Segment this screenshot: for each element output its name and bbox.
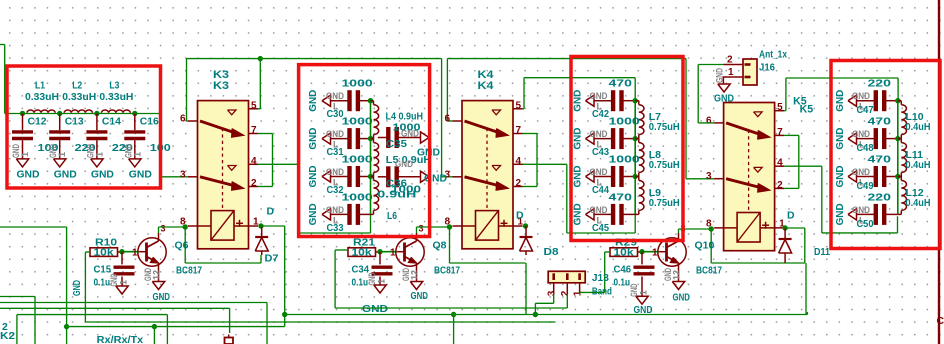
capacitor C46: [641, 252, 643, 265]
wire left edge to K3 coil area: [0, 226, 67, 228]
svg-text:470: 470: [868, 154, 892, 166]
svg-text:C49: C49: [857, 181, 874, 192]
connector J16: [743, 59, 757, 85]
svg-text:C15: C15: [94, 263, 112, 275]
svg-text:GND: GND: [395, 159, 413, 169]
svg-text:0.75uH: 0.75uH: [649, 121, 680, 133]
inductor L9: [635, 176, 639, 178]
svg-text:GND: GND: [129, 168, 152, 180]
node R10/Q6 base junction: [119, 249, 124, 254]
svg-text:1: 1: [94, 152, 104, 157]
connector J16 pin 1 stub: [723, 76, 743, 78]
svg-text:C43: C43: [592, 147, 609, 158]
capacitor C34 gnd: [379, 277, 381, 286]
ground symbol for C49: [848, 171, 857, 182]
wire K4 coil net to bottom bus: [525, 263, 527, 315]
node junction C12: [20, 111, 25, 116]
svg-text:2: 2: [560, 290, 571, 296]
wire J13 pin2 down: [566, 294, 568, 308]
connector J16 pin 2 stub: [723, 64, 743, 66]
svg-text:12: 12: [410, 270, 420, 280]
node R21/Q8 base junction: [377, 249, 382, 254]
relay K4 pin 8 stub: [453, 225, 476, 227]
svg-text:C35: C35: [386, 138, 407, 150]
wire K4 pin4 to filter3: [523, 163, 567, 165]
svg-text:7: 7: [516, 125, 522, 136]
relay K5 contact triangle pin4: [754, 167, 763, 172]
svg-text:GND: GND: [91, 168, 114, 180]
wire relay coil supply line: [285, 314, 808, 316]
svg-text:GND: GND: [109, 273, 119, 286]
svg-text:C13: C13: [65, 115, 84, 127]
capacitor C31: [331, 138, 350, 140]
resistor R21: [348, 248, 376, 257]
svg-text:R29: R29: [615, 236, 637, 248]
svg-text:0.4uH: 0.4uH: [906, 159, 931, 171]
node junction K4 pin1: [523, 223, 528, 228]
svg-text:C45: C45: [592, 223, 609, 234]
svg-text:5: 5: [251, 100, 257, 111]
ground symbol for C44: [586, 171, 595, 182]
capacitor C36: [378, 176, 389, 178]
node junction Rx line mid: [152, 324, 157, 329]
svg-text:0.4uH: 0.4uH: [906, 121, 931, 133]
wire filter2 bottom return: [298, 232, 371, 234]
svg-text:GND: GND: [153, 291, 171, 303]
capacitor C13: [59, 114, 61, 131]
via pad: [225, 338, 234, 344]
svg-text:Band: Band: [592, 286, 612, 298]
relay K4 coil: [476, 211, 499, 241]
svg-text:GND: GND: [852, 129, 870, 139]
wire filter4 bottom return: [822, 232, 898, 234]
svg-text:GND: GND: [424, 173, 447, 185]
wire R10 left lead down: [85, 251, 90, 253]
resistor R10: [90, 248, 118, 257]
capacitor C15: [121, 252, 123, 265]
wire K4 pin7 to pin2 jumper: [523, 133, 538, 135]
svg-text:0.1u: 0.1u: [614, 277, 631, 289]
transistor Q8 emitter gnd: [416, 272, 418, 282]
svg-text:2: 2: [251, 178, 257, 189]
svg-text:1: 1: [119, 280, 129, 285]
svg-text:GND: GND: [307, 165, 319, 187]
capacitor C32: [331, 176, 350, 178]
node junction C14: [94, 111, 99, 116]
node junction C31: [368, 136, 373, 141]
wire rail K4.6-K5.3: [447, 58, 686, 60]
svg-text:1: 1: [20, 152, 30, 157]
svg-text:0.1u: 0.1u: [94, 277, 111, 289]
ground symbol for C45: [586, 209, 595, 220]
relay K3 contact triangle pin4: [228, 166, 237, 171]
relay K3 pin 8 stub: [188, 225, 211, 227]
inductor L2: [64, 110, 92, 113]
relay K5 switch arm 1: [726, 123, 762, 135]
svg-text:4: 4: [777, 158, 783, 169]
signal bus wire: [370, 101, 372, 215]
svg-text:6: 6: [706, 115, 712, 126]
capacitor C49: [857, 176, 876, 178]
svg-text:C16: C16: [140, 115, 159, 127]
svg-text:L3: L3: [109, 80, 119, 92]
wire R21 left lead down to J13 pin2 net: [335, 249, 348, 251]
svg-text:GND: GND: [590, 167, 608, 177]
svg-text:1: 1: [377, 279, 387, 284]
capacitor C30: [331, 100, 350, 102]
svg-text:GND: GND: [72, 280, 83, 296]
relay K4 body: [462, 101, 513, 249]
relay K5 dashed link: [748, 130, 750, 213]
svg-text:L1: L1: [35, 80, 45, 92]
svg-text:2: 2: [727, 55, 733, 66]
node junction C13: [57, 111, 62, 116]
wire base lead: [122, 251, 140, 253]
inductor L3: [101, 110, 130, 113]
svg-text:GND: GND: [326, 167, 344, 177]
ground symbol for C14: [91, 159, 103, 167]
relay K5 pin 4 stub: [775, 165, 785, 167]
wire control line A: [0, 296, 35, 298]
relay K4 coil plus sign: [501, 222, 508, 224]
node junction C49: [895, 174, 900, 179]
relay K5 coil plus sign: [762, 224, 769, 226]
svg-text:BC817: BC817: [434, 264, 460, 276]
svg-text:GND: GND: [590, 129, 608, 139]
diode D8: [525, 226, 527, 237]
capacitor C47: [857, 100, 876, 102]
svg-text:GND: GND: [852, 91, 870, 101]
node junction coil supply branch: [451, 312, 456, 317]
highlight box filter 3: [571, 57, 683, 241]
svg-text:1: 1: [639, 290, 649, 295]
svg-text:C12: C12: [28, 115, 47, 127]
svg-text:D: D: [267, 206, 275, 218]
node junction C42: [633, 98, 638, 103]
inductor L7: [635, 100, 639, 102]
svg-text:C14: C14: [102, 115, 121, 127]
relay K5 pin 5 stub: [775, 110, 785, 112]
svg-text:GND: GND: [834, 165, 846, 187]
svg-text:J16: J16: [759, 62, 775, 74]
svg-text:5: 5: [777, 102, 783, 113]
relay K4 pin 5 stub: [513, 108, 523, 110]
diode D11: [784, 228, 786, 239]
node junction C44: [633, 174, 638, 179]
svg-text:GND: GND: [852, 205, 870, 215]
transistor Q10: [658, 238, 686, 266]
svg-text:7: 7: [251, 125, 257, 136]
wire K4 coil loop: [449, 227, 451, 263]
svg-text:GND: GND: [715, 68, 725, 83]
svg-text:GND: GND: [326, 205, 344, 215]
capacitor C50: [857, 213, 876, 215]
svg-text:220: 220: [868, 191, 892, 203]
svg-text:GND: GND: [572, 127, 584, 149]
svg-text:1: 1: [572, 290, 583, 296]
capacitor C16: [134, 114, 136, 131]
ground J16 pin1: [722, 76, 725, 78]
wire coil supply riser to K5: [806, 312, 808, 315]
wire K5 pin1 to filter return drop: [785, 227, 805, 229]
wire Q10 collector to K5 pin8: [678, 229, 680, 233]
wire filter1 output: [160, 114, 162, 177]
svg-text:C50: C50: [857, 219, 874, 230]
node junction C48: [895, 136, 900, 141]
svg-text:470: 470: [868, 116, 892, 128]
svg-text:10k: 10k: [94, 248, 115, 259]
relay K5 pin 8 stub: [714, 227, 737, 229]
wire control line D: [17, 314, 168, 316]
inductor L1: [27, 110, 55, 113]
svg-text:C46: C46: [614, 263, 632, 275]
transistor Q6: [138, 238, 166, 266]
svg-text:3: 3: [161, 224, 166, 234]
node junction C43: [633, 136, 638, 141]
node junction rail/K3 pin5: [258, 56, 263, 61]
svg-text:12: 12: [672, 270, 682, 280]
svg-text:BC817: BC817: [696, 264, 722, 276]
highlight box filter 2: [299, 65, 430, 237]
signal bus wire: [634, 101, 636, 215]
svg-text:GND: GND: [572, 89, 584, 111]
ground symbol for C33: [322, 209, 331, 220]
wire K5 coil loop: [710, 229, 712, 263]
svg-text:Q6: Q6: [175, 240, 189, 252]
resistor R21 leads: [376, 251, 381, 253]
ground symbol for C32: [322, 171, 331, 182]
node R29/Q10 base junction: [639, 249, 644, 254]
ground symbol for C35: [421, 132, 430, 143]
svg-text:Rx/Rx/Tx: Rx/Rx/Tx: [97, 334, 144, 344]
ground symbol for C43: [586, 133, 595, 144]
svg-text:D7: D7: [265, 253, 279, 265]
svg-text:470: 470: [609, 191, 633, 203]
wire K3 coil loop: [184, 227, 186, 263]
wire base lead: [642, 251, 660, 253]
svg-text:GND: GND: [307, 203, 319, 225]
capacitor C44: [594, 176, 613, 178]
wire K4 pin5 riser to filter3 input: [523, 108, 525, 110]
svg-text:1: 1: [132, 152, 142, 157]
svg-text:220: 220: [868, 78, 892, 90]
relay K4 pin 2 stub: [513, 186, 523, 188]
svg-text:6: 6: [180, 114, 186, 125]
svg-text:3: 3: [180, 169, 186, 180]
ground symbol for C50: [848, 209, 857, 220]
svg-text:470: 470: [609, 78, 633, 90]
transistor Q8: [396, 238, 424, 266]
relay K5 coil: [737, 213, 760, 243]
relay K4 pin 3 stub: [453, 176, 463, 178]
svg-text:C44: C44: [592, 185, 609, 196]
svg-text:GND: GND: [54, 168, 77, 180]
node junction K3 pin1: [258, 223, 263, 228]
relay K4 contact triangle pin4: [492, 166, 501, 171]
svg-text:3: 3: [706, 171, 712, 182]
svg-text:0.1u: 0.1u: [352, 277, 369, 289]
svg-text:0.4uH: 0.4uH: [906, 197, 931, 209]
svg-text:Q8: Q8: [433, 240, 447, 252]
inductor L8: [635, 138, 639, 140]
ground symbol for C48: [848, 133, 857, 144]
svg-text:GND: GND: [326, 91, 344, 101]
highlight box filter 4: [831, 61, 940, 249]
svg-text:BC817: BC817: [176, 264, 202, 276]
svg-text:D11: D11: [814, 246, 830, 258]
node junction Rx line left: [64, 324, 69, 329]
svg-text:C42: C42: [592, 109, 609, 120]
svg-text:C48: C48: [857, 143, 874, 154]
svg-text:3: 3: [419, 224, 424, 234]
svg-text:6: 6: [444, 114, 450, 125]
svg-text:GND: GND: [852, 167, 870, 177]
ground symbol for C12: [16, 159, 28, 167]
svg-text:1: 1: [728, 67, 734, 78]
capacitor C15 gnd: [121, 277, 123, 287]
relay K4 pin 1 stub: [499, 225, 523, 227]
svg-text:1000: 1000: [342, 154, 373, 166]
inductor L5: [371, 138, 374, 140]
svg-text:GND: GND: [307, 89, 319, 111]
svg-text:GND: GND: [572, 203, 584, 225]
wire K3 pin1 net to bottom bus: [261, 225, 285, 227]
svg-text:10k: 10k: [614, 248, 635, 259]
relay K5 pin 6 stub: [714, 122, 724, 124]
capacitor C34: [379, 252, 381, 265]
wire K5 coil net to bottom bus: [805, 263, 807, 315]
ground symbol for C16: [129, 159, 141, 167]
relay K4 dashed link: [486, 128, 488, 211]
ground symbol for C13: [54, 159, 66, 167]
relay K3 pin 1 stub: [234, 225, 258, 227]
svg-text:3: 3: [546, 290, 557, 296]
svg-text:C47: C47: [857, 105, 874, 116]
svg-text:GND: GND: [401, 129, 419, 139]
inductor L10: [898, 100, 902, 102]
node junction coil supply/D7: [282, 312, 287, 317]
svg-text:GND: GND: [834, 203, 846, 225]
relay K5 pin 3 stub: [714, 178, 724, 180]
signal bus wire: [897, 101, 899, 215]
node main line into filter 1: [0, 44, 5, 46]
wire filter3 bottom return: [567, 232, 635, 234]
node junction C16: [132, 111, 137, 116]
relay K5 pin 7 stub: [775, 134, 785, 136]
wire J13 pin1 to R29: [579, 292, 581, 293]
node junction K5 pin8: [709, 226, 714, 231]
wire control line E: [85, 321, 555, 323]
wire K3 pin5 riser: [258, 108, 260, 110]
svg-text:Ant_1x: Ant_1x: [759, 49, 787, 61]
svg-text:GND: GND: [572, 165, 584, 187]
inductor L4: [371, 100, 374, 102]
svg-text:1000: 1000: [342, 191, 373, 203]
node junction C30: [368, 98, 373, 103]
svg-text:12: 12: [152, 270, 162, 280]
capacitor C35: [378, 137, 389, 139]
svg-text:1000: 1000: [391, 184, 421, 196]
svg-text:K5: K5: [800, 104, 814, 116]
ground symbol for C47: [848, 95, 857, 106]
wire K3 pin4 to filter2: [258, 163, 298, 165]
svg-text:0.75uH: 0.75uH: [649, 197, 680, 209]
relay K4 switch arm 2: [465, 177, 501, 186]
inductor L11: [898, 138, 902, 140]
relay K3 pin 6 stub: [188, 120, 198, 122]
svg-text:4: 4: [516, 156, 522, 167]
ground symbol for C36: [421, 171, 430, 182]
relay K3 switch arm 2: [200, 177, 236, 186]
svg-text:K2: K2: [0, 330, 15, 342]
relay K4 contact triangle pin5: [492, 110, 501, 115]
svg-text:GND: GND: [629, 283, 639, 296]
relay K4 pin 6 stub: [453, 120, 463, 122]
relay K5 contact triangle pin5: [754, 112, 763, 117]
highlight box filter 1: [7, 66, 161, 188]
svg-text:K3: K3: [213, 80, 229, 92]
relay K4 pin 4 stub: [513, 163, 523, 165]
relay K3 pin 4 stub: [249, 163, 259, 165]
diode D7: [261, 226, 263, 237]
capacitor C48: [857, 138, 876, 140]
svg-text:D8: D8: [544, 246, 559, 258]
resistor R29: [610, 248, 638, 257]
svg-text:2: 2: [516, 178, 522, 189]
node junction K4 pin8: [447, 224, 452, 229]
inductor L12: [898, 176, 902, 178]
relay K3 body: [198, 101, 249, 249]
wire control line B: [0, 302, 267, 304]
capacitor C14: [96, 114, 98, 131]
capacitor C12: [22, 114, 24, 131]
svg-text:GND: GND: [834, 89, 846, 111]
ground symbol for C30: [322, 95, 331, 106]
wire J16 pin2 to K5 pin6: [698, 64, 723, 66]
svg-text:0.33uH: 0.33uH: [62, 91, 96, 103]
wire filter1 top node line: [23, 113, 161, 115]
svg-text:7: 7: [777, 127, 783, 138]
wire K5 pin7 to pin2 jumper: [784, 134, 799, 136]
relay K5 body: [724, 103, 775, 251]
svg-text:GND: GND: [714, 93, 734, 105]
svg-text:GND: GND: [590, 91, 608, 101]
svg-text:GND: GND: [17, 168, 40, 180]
svg-text:0.75uH: 0.75uH: [649, 159, 680, 171]
node junction K3 pin8: [183, 224, 188, 229]
relay K3 pin 3 stub: [188, 176, 198, 178]
capacitor C46 gnd: [641, 277, 643, 297]
svg-text:10k: 10k: [352, 248, 373, 259]
ground symbol for C31: [322, 133, 331, 144]
wire base lead: [380, 251, 398, 253]
svg-text:R10: R10: [95, 236, 117, 248]
capacitor C43: [594, 138, 613, 140]
svg-text:4: 4: [251, 156, 257, 167]
svg-text:1: 1: [253, 217, 259, 228]
svg-text:1000: 1000: [342, 116, 373, 128]
relay K3 contact triangle pin5: [228, 110, 237, 115]
relay K4 pin 7 stub: [513, 133, 523, 135]
relay K3 switch arm 1: [200, 121, 236, 133]
node junction C47: [895, 98, 900, 103]
svg-text:GND: GND: [367, 272, 377, 285]
resistor R29 leads: [638, 251, 643, 253]
resistor R10 leads: [118, 251, 123, 253]
wire R29 left lead down to J13 pin1 net: [605, 251, 610, 253]
wire K5 pin5 riser to filter4 input: [784, 110, 786, 112]
svg-text:K4: K4: [478, 80, 495, 92]
